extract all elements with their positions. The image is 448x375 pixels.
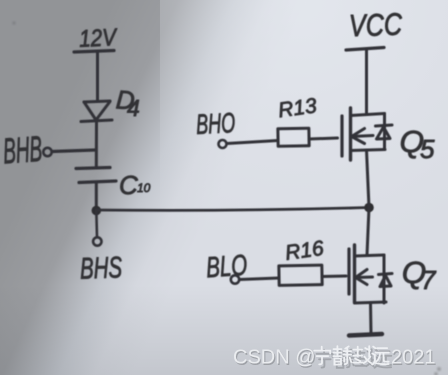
transistor Q7	[349, 245, 392, 303]
wire junction to BHS terminal	[95, 210, 98, 237]
watermark glyph zhi shadow	[355, 349, 373, 366]
wire phase node horizontal	[96, 208, 369, 211]
watermark glyph yuan shadow	[375, 350, 392, 368]
capacitor C10	[76, 168, 116, 183]
svg-text:BHS: BHS	[79, 251, 122, 285]
svg-text:C: C	[119, 170, 138, 200]
watermark CSDN	[233, 346, 437, 370]
wire BHO to R13	[227, 141, 278, 144]
svg-text:7: 7	[421, 265, 437, 295]
watermark glyph jing	[333, 346, 351, 365]
watermark glyph jing shadow	[336, 349, 354, 368]
svg-text:BHO: BHO	[195, 107, 236, 140]
watermark glyph yuan	[372, 347, 389, 365]
wire C10 to node BHS junction	[95, 182, 98, 210]
junction node left	[92, 206, 102, 216]
svg-text:12V: 12V	[78, 24, 118, 53]
resistor R13	[278, 128, 309, 146]
wire Q7 source to ground	[369, 303, 373, 334]
watermark glyph ning	[314, 347, 330, 365]
transistor Q5	[342, 108, 392, 160]
wire BLO to R16	[240, 278, 280, 280]
terminal BHO	[219, 140, 227, 148]
watermark glyph ning shadow	[317, 350, 333, 368]
svg-text:VCC: VCC	[348, 7, 403, 44]
diode D4	[81, 101, 112, 122]
svg-text:10: 10	[137, 181, 151, 195]
terminal BHB	[43, 148, 51, 156]
12V supply rail bar	[74, 51, 114, 53]
svg-text:4: 4	[127, 95, 140, 121]
wire diode D4 cathode to node BHB	[95, 122, 98, 169]
ground	[349, 334, 382, 336]
wire BHB terminal to vertical branch	[52, 150, 95, 152]
resistor R16	[279, 265, 322, 285]
wire R13 to Q5 gate	[309, 138, 338, 139]
wire VCC to Q5 drain	[365, 50, 368, 115]
wire phase node to Q7 drain	[367, 208, 369, 256]
svg-text:BHB: BHB	[2, 128, 44, 172]
wire Q5 source to phase node	[367, 150, 370, 208]
junction node right	[364, 203, 374, 213]
svg-text:2021: 2021	[391, 347, 436, 369]
svg-text:5: 5	[420, 134, 435, 164]
wire 12V rail to diode D4 anode	[96, 52, 99, 101]
svg-text:CSDN @: CSDN @	[233, 347, 316, 369]
watermark glyph zhi	[353, 346, 371, 363]
VCC rail bar	[346, 48, 384, 51]
terminal BLO	[231, 275, 239, 283]
terminal BHS	[93, 237, 101, 245]
wire R16 to Q7 gate	[322, 275, 346, 279]
